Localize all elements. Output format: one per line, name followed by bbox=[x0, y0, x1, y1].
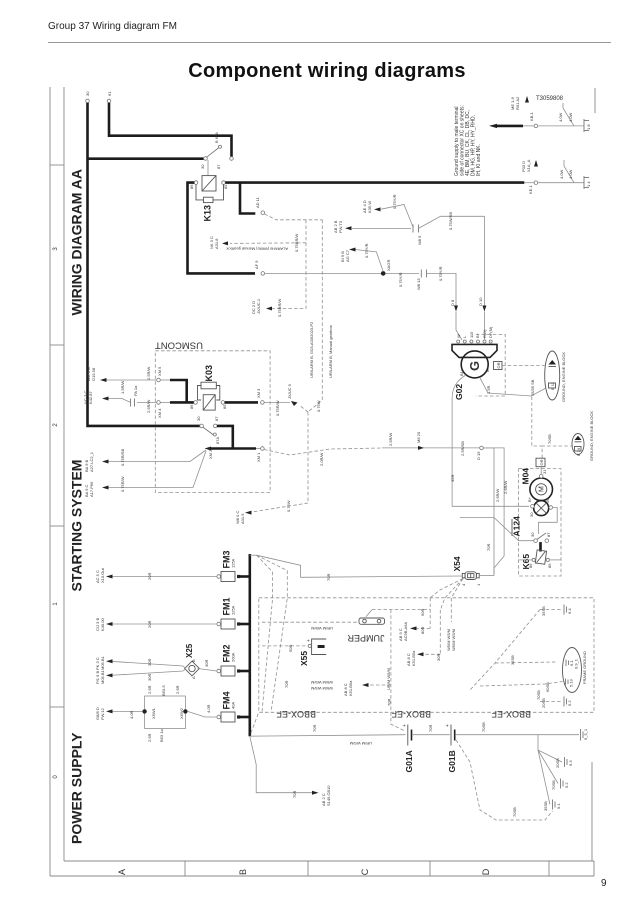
wire K03 pin85 to XM 3 (thick) bbox=[225, 388, 265, 404]
starter motor M04 bbox=[521, 468, 553, 517]
svg-text:B-: B- bbox=[485, 367, 490, 372]
grid letter B bbox=[238, 869, 248, 875]
label GROUND, ENGINE BLOCK (2) bbox=[589, 411, 594, 461]
svg-text:70R: 70R bbox=[326, 574, 331, 581]
svg-text:AF 9: AF 9 bbox=[254, 260, 259, 269]
start switch 30/87A in USMCONT bbox=[196, 416, 220, 444]
connector X25 bbox=[185, 643, 200, 679]
destination P/1 9 B M05.B1 bbox=[95, 669, 185, 684]
node XM 4 bbox=[157, 401, 162, 418]
destination P03 D X1A_A bbox=[521, 159, 538, 172]
svg-text:61: 61 bbox=[107, 91, 112, 96]
svg-text:86: 86 bbox=[189, 184, 194, 189]
svg-text:86: 86 bbox=[528, 563, 533, 568]
svg-text:UR/LARM B, G03-A03/2023-P2: UR/LARM B, G03-A03/2023-P2 bbox=[309, 321, 314, 378]
destination BA 9 C A17.P66 bbox=[84, 451, 206, 497]
wire G01A to G01B bbox=[413, 725, 450, 735]
svg-text:70SB: 70SB bbox=[536, 690, 541, 700]
dashed links frame ground bbox=[470, 610, 556, 701]
svg-text:JX/UC-1: JX/UC-1 bbox=[256, 298, 261, 314]
wire K65 86 stub bbox=[519, 559, 532, 561]
svg-text:5.13: 5.13 bbox=[569, 678, 574, 687]
wire G01B minus to chassis bbox=[456, 722, 579, 735]
wire 30 branch to ignition switch bbox=[88, 157, 204, 160]
svg-text:T3059808: T3059808 bbox=[536, 96, 564, 102]
svg-text:A01.9: A01.9 bbox=[240, 513, 245, 524]
destination AB 8 C K51.B5a (2) bbox=[343, 680, 391, 696]
svg-text:4.0R: 4.0R bbox=[206, 704, 211, 713]
label GROUND, ENGINE BLOCK (1) bbox=[561, 352, 566, 402]
wire bus to battery G01A bbox=[250, 725, 406, 746]
wire KB-1 (thick stub) bbox=[489, 111, 538, 128]
wire G02 B+ down to M04 B+ bbox=[450, 375, 529, 506]
svg-text:2.5R: 2.5R bbox=[175, 685, 180, 694]
svg-text:9_5_1: 9_5_1 bbox=[583, 728, 588, 740]
fuse FM4 40A bbox=[217, 692, 250, 723]
wire XM5 jumper to coil (thick) bbox=[160, 380, 186, 402]
svg-text:0.75Y/R: 0.75Y/R bbox=[364, 243, 369, 258]
svg-text:30: 30 bbox=[85, 91, 90, 96]
svg-text:A124: A124 bbox=[512, 516, 522, 537]
terminal 5.2 bbox=[540, 697, 572, 709]
svg-text:35SB: 35SB bbox=[541, 606, 546, 616]
destination AC 5 C X10.Out bbox=[95, 567, 217, 583]
destination ME 1-9 R01.A2 bbox=[510, 96, 529, 110]
svg-text:W5/M W5/M: W5/M W5/M bbox=[451, 629, 456, 651]
svg-text:E 11: E 11 bbox=[550, 381, 555, 390]
svg-text:3: 3 bbox=[53, 247, 59, 251]
destination AE 4 D K35.W bbox=[362, 194, 413, 227]
grid letter C bbox=[360, 868, 370, 875]
svg-text:STARTING SYSTEM: STARTING SYSTEM bbox=[69, 460, 85, 592]
wire 30: thick feed left bus bbox=[88, 103, 202, 426]
svg-text:85: 85 bbox=[222, 404, 227, 409]
ground splits to frame terminals bbox=[538, 735, 562, 805]
svg-text:BBOX-EF: BBOX-EF bbox=[491, 709, 531, 719]
svg-text:30: 30 bbox=[529, 512, 534, 517]
destination JX/UC 9 bbox=[287, 383, 321, 412]
node XM 5 bbox=[157, 366, 162, 382]
wire to terminal 1 4 bbox=[524, 160, 584, 183]
svg-text:D 8: D 8 bbox=[450, 299, 455, 306]
wire D19 to X54 bbox=[483, 448, 504, 574]
svg-text:R01.A2: R01.A2 bbox=[515, 96, 520, 110]
svg-text:+: + bbox=[445, 724, 451, 727]
wire bus to X54 (70R) bbox=[257, 544, 491, 581]
frame ground stud bbox=[563, 648, 582, 693]
junction XAGR bbox=[381, 260, 391, 276]
switch S (30/87, B 63A) bbox=[200, 132, 233, 169]
svg-text:A17.P66: A17.P66 bbox=[89, 481, 94, 497]
wire AF9 to junction XAGR bbox=[265, 272, 382, 274]
svg-text:X25: X25 bbox=[185, 643, 194, 658]
relay K13 bbox=[189, 176, 228, 222]
junction loop X6W1/X6W2 bbox=[142, 685, 187, 742]
svg-text:D 19: D 19 bbox=[476, 451, 481, 460]
wire G02 B- to ground bbox=[480, 378, 546, 396]
node 61 (supply terminal) bbox=[107, 91, 112, 103]
svg-text:UR/M WS/M: UR/M WS/M bbox=[350, 741, 372, 746]
node XM 1 bbox=[256, 447, 264, 462]
relay contact 30/87 (in A124) bbox=[530, 532, 551, 543]
svg-text:B1+: B1+ bbox=[459, 368, 464, 376]
net name ALARM-B (White) Manual gearbox bbox=[226, 247, 288, 252]
svg-text:W8 13: W8 13 bbox=[416, 278, 421, 290]
svg-text:80R: 80R bbox=[420, 627, 425, 634]
svg-text:115: 115 bbox=[469, 331, 474, 338]
svg-text:1 4: 1 4 bbox=[586, 181, 591, 187]
OR box at G02 bbox=[494, 362, 503, 370]
svg-text:DF(M): DF(M) bbox=[488, 326, 493, 338]
svg-text:B+: B+ bbox=[527, 496, 532, 502]
svg-text:A: A bbox=[191, 676, 196, 679]
wire junction to splice W8 13 bbox=[386, 272, 420, 287]
battery box BBOX-EF (dashed) bbox=[259, 598, 594, 719]
svg-text:20SB: 20SB bbox=[541, 698, 546, 708]
destination PK 3 C M05.B1 bbox=[95, 655, 185, 670]
svg-text:50: 50 bbox=[545, 498, 550, 503]
drawing frame: column-letter band (bottom) bbox=[50, 861, 594, 876]
svg-text:A31.8: A31.8 bbox=[214, 238, 219, 249]
svg-text:85: 85 bbox=[547, 563, 552, 568]
svg-text:POWER SUPPLY: POWER SUPPLY bbox=[69, 732, 85, 844]
grid number 0 bbox=[53, 775, 59, 779]
svg-text:X10.Out: X10.Out bbox=[100, 567, 105, 583]
svg-text:W8 9: W8 9 bbox=[417, 235, 422, 245]
svg-text:K13: K13 bbox=[203, 205, 213, 222]
svg-text:WIRING DIAGRAM AA: WIRING DIAGRAM AA bbox=[69, 169, 85, 315]
right border fragments bbox=[592, 88, 595, 861]
svg-text:B 63A: B 63A bbox=[214, 132, 219, 143]
svg-text:4.0W: 4.0W bbox=[568, 169, 573, 179]
connector X54 bbox=[452, 556, 481, 586]
svg-text:0.75Y/R: 0.75Y/R bbox=[392, 194, 397, 209]
svg-text:87: 87 bbox=[214, 416, 219, 421]
wire switch 87 to XM1 rail (thick) bbox=[217, 426, 233, 449]
svg-text:2.5R: 2.5R bbox=[147, 685, 152, 694]
svg-text:X1A_A: X1A_A bbox=[526, 159, 531, 172]
svg-text:4.0W: 4.0W bbox=[558, 112, 563, 122]
dashed wire G01B to ground stud bbox=[456, 740, 553, 820]
svg-text:50R: 50R bbox=[288, 645, 293, 652]
svg-text:30R: 30R bbox=[147, 674, 152, 681]
svg-text:JX/UC 9: JX/UC 9 bbox=[287, 383, 292, 399]
drawing frame: row-number band (left) bbox=[50, 87, 64, 876]
svg-text:G15.58: G15.58 bbox=[91, 367, 96, 381]
svg-text:2.5R: 2.5R bbox=[147, 733, 152, 742]
svg-text:30: 30 bbox=[200, 164, 205, 169]
svg-text:0.75BR/W: 0.75BR/W bbox=[277, 299, 282, 317]
svg-text:20R: 20R bbox=[147, 573, 152, 580]
svg-text:30: 30 bbox=[196, 416, 201, 421]
jumper strap bbox=[347, 610, 385, 643]
svg-text:70R: 70R bbox=[387, 699, 392, 706]
svg-text:30R: 30R bbox=[147, 659, 152, 666]
svg-text:AD 11: AD 11 bbox=[255, 196, 260, 208]
svg-text:K03: K03 bbox=[204, 365, 214, 382]
section title POWER SUPPLY bbox=[69, 732, 85, 844]
svg-text:70SB: 70SB bbox=[547, 434, 552, 444]
svg-text:40A: 40A bbox=[231, 702, 236, 709]
svg-text:R(D): R(D) bbox=[482, 329, 487, 338]
svg-text:70R: 70R bbox=[428, 725, 433, 732]
wire D 8 bbox=[427, 266, 463, 340]
svg-text:X6W1: X6W1 bbox=[151, 707, 156, 719]
svg-text:K35.W: K35.W bbox=[367, 201, 372, 213]
svg-text:XAGR: XAGR bbox=[386, 260, 391, 271]
destination BI 9 B AG C7 bbox=[340, 243, 383, 271]
dashed vertical drops in BBOX bbox=[430, 598, 440, 655]
terminal 9_5_1 bbox=[581, 728, 589, 740]
svg-text:GROUND, ENGINE BLOCK: GROUND, ENGINE BLOCK bbox=[589, 411, 594, 461]
svg-text:70SB: 70SB bbox=[481, 722, 486, 732]
svg-text:D: D bbox=[481, 868, 491, 875]
destination W8 0 C A01.9 bbox=[235, 500, 308, 524]
destination BA 9 B A27.LC2_1 bbox=[84, 449, 206, 472]
splice W8 13 bbox=[416, 270, 427, 291]
svg-text:K42.87: K42.87 bbox=[88, 391, 93, 404]
destination AB 9 C AC9B.A6A bbox=[398, 622, 430, 641]
svg-text:70R: 70R bbox=[292, 791, 297, 798]
svg-text:K51.B5a: K51.B5a bbox=[411, 650, 416, 666]
page title bbox=[8, 60, 638, 83]
grid number 2 bbox=[53, 423, 59, 427]
grid letter D bbox=[481, 868, 491, 875]
wire to terminal 1 8 bbox=[523, 103, 584, 126]
svg-text:B63-5: B63-5 bbox=[161, 685, 166, 696]
destination NK 3 C A31.8 bbox=[209, 236, 228, 249]
svg-text:4: 4 bbox=[461, 583, 466, 586]
svg-text:AG C7: AG C7 bbox=[345, 249, 350, 262]
destination C/J 3 B K40.00 bbox=[95, 618, 217, 631]
wire D 10 bbox=[419, 212, 487, 340]
wire contact 30 to left bbox=[460, 518, 534, 541]
grid number 3 bbox=[53, 247, 59, 251]
svg-text:4.0W: 4.0W bbox=[559, 169, 564, 179]
svg-text:X6W2: X6W2 bbox=[179, 707, 184, 719]
dashed wire XM1 to M8 20 line bbox=[264, 448, 382, 466]
svg-text:5.2: 5.2 bbox=[567, 700, 572, 706]
svg-text:0.75R/W: 0.75R/W bbox=[275, 400, 280, 416]
terminal 9.3 bbox=[555, 757, 573, 768]
svg-text:AC9B.A6A: AC9B.A6A bbox=[403, 622, 408, 641]
svg-text:M8 20: M8 20 bbox=[416, 431, 421, 443]
node AF 9 bbox=[254, 260, 265, 275]
wire bus to AB 2 C S149.CB10 bbox=[250, 736, 331, 806]
node 30 (supply terminal) bbox=[85, 91, 90, 103]
svg-text:0.75W/SB: 0.75W/SB bbox=[448, 212, 453, 230]
wire X6W2 to FM4 bbox=[188, 704, 217, 717]
svg-text:35/35 SB: 35/35 SB bbox=[530, 379, 535, 396]
svg-text:E 19: E 19 bbox=[576, 447, 581, 456]
node AD 11 bbox=[255, 196, 265, 214]
note: ground supply text bbox=[454, 105, 482, 176]
svg-text:A: A bbox=[117, 869, 127, 875]
relay K03 bbox=[189, 365, 227, 410]
svg-text:6.4: 6.4 bbox=[567, 608, 572, 614]
wire XM2 to XM1 (thick) bbox=[211, 447, 256, 450]
svg-text:M05.B1: M05.B1 bbox=[100, 669, 105, 684]
svg-text:0.75W: 0.75W bbox=[286, 500, 291, 512]
svg-text:UR/M W5/M: UR/M W5/M bbox=[311, 626, 333, 631]
svg-text:2.5R/W: 2.5R/W bbox=[146, 366, 151, 380]
svg-text:20SB: 20SB bbox=[555, 758, 560, 768]
destination G8/8 D PW.12 bbox=[95, 707, 142, 720]
node KE-1 on trunk bbox=[528, 181, 538, 194]
svg-text:M04: M04 bbox=[521, 468, 531, 485]
wire to frame stud 5.13 bbox=[480, 682, 563, 693]
svg-text:87A: 87A bbox=[215, 437, 220, 444]
OR box at M04 bbox=[536, 458, 545, 474]
svg-text:70R: 70R bbox=[486, 544, 491, 551]
terminal bracket 1 8 bbox=[584, 119, 591, 132]
svg-text:W5/M W5/M: W5/M W5/M bbox=[311, 680, 333, 685]
svg-text:1: 1 bbox=[53, 602, 59, 606]
svg-text:87: 87 bbox=[546, 532, 551, 537]
svg-text:USMCONT: USMCONT bbox=[155, 340, 203, 351]
svg-text:0: 0 bbox=[53, 775, 59, 779]
svg-text:+: + bbox=[402, 724, 408, 727]
svg-text:87: 87 bbox=[216, 164, 221, 169]
svg-text:GROUND, ENGINE BLOCK: GROUND, ENGINE BLOCK bbox=[561, 352, 566, 402]
svg-text:2.0R/W: 2.0R/W bbox=[319, 452, 324, 466]
svg-text:BBOX-EF: BBOX-EF bbox=[391, 709, 431, 719]
svg-text:PA 1a: PA 1a bbox=[133, 385, 138, 396]
svg-text:X55: X55 bbox=[299, 651, 309, 666]
X54 fan-out (dashed drops) bbox=[430, 579, 463, 623]
svg-text:JUMPER: JUMPER bbox=[347, 633, 385, 643]
net names under X55 bbox=[284, 680, 333, 691]
alternator G02 bbox=[452, 326, 497, 400]
svg-text:70R: 70R bbox=[312, 725, 317, 732]
grid number 1 bbox=[53, 602, 59, 606]
destination AB 8 C K51.B5a bbox=[406, 650, 441, 666]
svg-text:G02: G02 bbox=[454, 384, 464, 400]
svg-text:0.75R/W: 0.75R/W bbox=[120, 476, 125, 492]
wire label 0.75BR/W bbox=[294, 234, 299, 252]
grid letter A bbox=[117, 869, 127, 875]
terminal 9.1 bbox=[543, 800, 561, 812]
svg-text:30R: 30R bbox=[204, 660, 209, 667]
svg-text:90R: 90R bbox=[420, 609, 425, 616]
svg-text:200A: 200A bbox=[231, 652, 236, 662]
svg-text:70SB: 70SB bbox=[551, 780, 556, 790]
destination AB 2 B PW.T3 bbox=[333, 220, 411, 233]
svg-text:2: 2 bbox=[53, 423, 59, 427]
destination A/C 1 B G15.58 bbox=[86, 366, 157, 382]
battery G01B bbox=[445, 724, 457, 773]
svg-text:2.5R/SB: 2.5R/SB bbox=[460, 441, 465, 456]
svg-text:IH, KI and NK.: IH, KI and NK. bbox=[476, 144, 482, 176]
svg-text:20R: 20R bbox=[147, 621, 152, 628]
control unit USMCONT (dashed box) bbox=[155, 340, 270, 493]
header rule bbox=[48, 42, 611, 43]
svg-text:XM 3: XM 3 bbox=[256, 388, 261, 398]
svg-text:1.5R: 1.5R bbox=[486, 385, 491, 394]
svg-text:0.75Y/R: 0.75Y/R bbox=[398, 272, 403, 287]
wire XM4 to K03 pin 86 (thick) bbox=[160, 401, 193, 403]
svg-text:2.5R/W: 2.5R/W bbox=[388, 432, 393, 446]
svg-text:B: B bbox=[191, 659, 196, 662]
svg-text:K40.00: K40.00 bbox=[100, 618, 105, 631]
svg-text:A27.LC2_1: A27.LC2_1 bbox=[89, 451, 94, 472]
svg-text:1.5R/W: 1.5R/W bbox=[120, 380, 125, 394]
header text bbox=[48, 21, 177, 32]
svg-text:2.5R/W: 2.5R/W bbox=[146, 399, 151, 413]
svg-text:UR/LARM B, Manual gearbox: UR/LARM B, Manual gearbox bbox=[328, 325, 333, 378]
svg-text:B63 1a: B63 1a bbox=[159, 729, 164, 742]
terminal 6.4 bbox=[540, 605, 572, 617]
destination NC-3 C K42.87 via splice PA 1a bbox=[83, 380, 157, 413]
battery G01A bbox=[402, 724, 414, 773]
node D 19 bbox=[460, 441, 483, 460]
node XM 2 bbox=[205, 447, 214, 460]
svg-text:+: + bbox=[306, 639, 312, 642]
dashed wire jumper to G01A plus bbox=[386, 610, 404, 731]
wire branch to AD 11 bbox=[240, 183, 255, 214]
svg-text:G01B: G01B bbox=[447, 750, 457, 772]
label FRAME GROUND bbox=[582, 651, 587, 684]
net name UR/LARM B, Manual gearbox bbox=[328, 325, 333, 378]
dashed wire to jumper (90R) bbox=[262, 609, 430, 631]
wire XM3 to JX/UC 9 bbox=[264, 400, 290, 416]
svg-text:X54: X54 bbox=[452, 556, 462, 571]
svg-text:30R: 30R bbox=[436, 654, 441, 661]
splice W8 9 bbox=[413, 225, 422, 246]
ground bolt E 19 (engine block 2) bbox=[572, 434, 584, 457]
svg-text:K51.B5a: K51.B5a bbox=[348, 680, 353, 696]
terminal bracket 1 4 bbox=[584, 176, 591, 189]
svg-text:XM 5: XM 5 bbox=[157, 366, 162, 376]
diagram id T3059808 bbox=[536, 96, 564, 102]
destination DC 2 D JX/UC-1 bbox=[251, 298, 282, 317]
svg-text:9.2: 9.2 bbox=[564, 782, 569, 788]
wire: K13 pin86 to AF 9 bbox=[188, 183, 256, 274]
ground bolt E 11 (engine block) bbox=[502, 351, 560, 400]
svg-text:0.75W: 0.75W bbox=[316, 400, 321, 412]
svg-text:S149.CB10: S149.CB10 bbox=[326, 785, 331, 806]
page number bbox=[601, 878, 607, 889]
dashed wire M04 to E 19 bbox=[532, 397, 572, 459]
svg-text:UR/M W5/M: UR/M W5/M bbox=[386, 668, 391, 690]
fuse FM1 125A bbox=[217, 598, 250, 630]
svg-text:C: C bbox=[360, 868, 370, 875]
svg-text:1: 1 bbox=[476, 583, 481, 586]
svg-text:35SB: 35SB bbox=[510, 655, 515, 665]
svg-text:B: B bbox=[238, 869, 248, 875]
svg-text:0.75Y/R: 0.75Y/R bbox=[438, 266, 443, 281]
svg-text:60SB: 60SB bbox=[545, 682, 550, 692]
svg-text:KB-1: KB-1 bbox=[529, 111, 534, 121]
wire X54 to 70R riser bbox=[479, 448, 508, 576]
svg-text:4.0R: 4.0R bbox=[129, 710, 134, 719]
svg-text:M: M bbox=[539, 486, 546, 492]
svg-text:W5/M W5/M: W5/M W5/M bbox=[311, 686, 333, 691]
svg-text:35SB: 35SB bbox=[543, 801, 548, 811]
svg-text:XM 4: XM 4 bbox=[157, 408, 162, 418]
section title STARTING SYSTEM bbox=[69, 460, 85, 592]
svg-text:M05.B1: M05.B1 bbox=[100, 655, 105, 670]
svg-text:30: 30 bbox=[530, 532, 535, 537]
svg-text:PW.T3: PW.T3 bbox=[338, 220, 343, 233]
dashed net from AD 11 bbox=[230, 214, 322, 309]
control box A124 (dashed) bbox=[512, 469, 562, 576]
fuse FM3 125A bbox=[217, 551, 250, 582]
svg-text:31: 31 bbox=[542, 469, 547, 474]
wire K65 85 stub bbox=[550, 559, 561, 561]
section title WIRING DIAGRAM AA bbox=[69, 169, 85, 315]
svg-text:XM 2: XM 2 bbox=[208, 449, 213, 459]
